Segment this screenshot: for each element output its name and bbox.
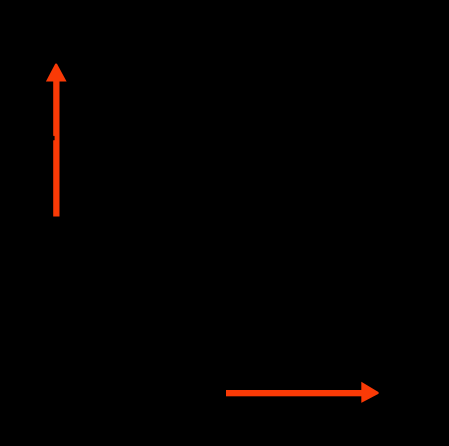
notch on vertical shaft [53, 136, 55, 141]
vertical arrow (up): arrowhead [46, 64, 67, 82]
horizontal arrow (right): shaft [226, 390, 362, 396]
horizontal arrow (right): arrowhead [361, 382, 378, 403]
vertical arrow (up): shaft [53, 80, 59, 217]
